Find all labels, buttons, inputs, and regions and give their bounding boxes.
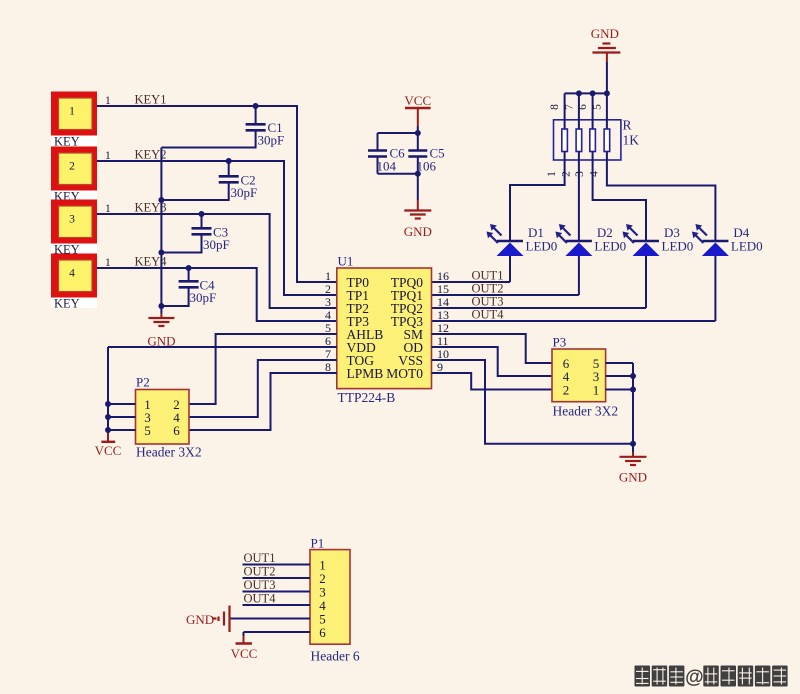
svg-text:P1: P1 bbox=[311, 536, 325, 551]
svg-text:8: 8 bbox=[549, 104, 561, 110]
svg-text:GND: GND bbox=[619, 470, 647, 485]
svg-text:Header 3X2: Header 3X2 bbox=[136, 445, 202, 460]
svg-text:GND: GND bbox=[186, 612, 214, 627]
svg-text:Header 6: Header 6 bbox=[311, 649, 360, 664]
svg-text:2: 2 bbox=[69, 161, 75, 173]
svg-text:TTP224-B: TTP224-B bbox=[338, 390, 396, 405]
svg-text:LED0: LED0 bbox=[662, 239, 694, 254]
svg-text:4: 4 bbox=[588, 171, 600, 177]
svg-text:KEY: KEY bbox=[54, 134, 80, 148]
svg-text:30pF: 30pF bbox=[190, 290, 217, 305]
svg-text:5: 5 bbox=[325, 321, 331, 335]
svg-text:LPMB: LPMB bbox=[347, 366, 384, 381]
svg-text:7: 7 bbox=[563, 104, 575, 110]
svg-text:1: 1 bbox=[593, 382, 600, 397]
svg-text:OUT3: OUT3 bbox=[244, 578, 276, 592]
svg-text:P3: P3 bbox=[553, 335, 567, 350]
svg-text:6: 6 bbox=[319, 625, 326, 640]
svg-text:VCC: VCC bbox=[231, 646, 258, 661]
svg-text:11: 11 bbox=[437, 334, 449, 348]
svg-text:15: 15 bbox=[437, 282, 449, 296]
svg-text:9: 9 bbox=[437, 360, 443, 374]
svg-text:OUT4: OUT4 bbox=[244, 592, 277, 606]
svg-text:GND: GND bbox=[404, 224, 432, 239]
svg-text:2: 2 bbox=[563, 382, 570, 397]
svg-text:OUT1: OUT1 bbox=[244, 551, 276, 565]
svg-text:GND: GND bbox=[591, 26, 619, 41]
svg-text:P2: P2 bbox=[136, 375, 150, 390]
svg-text:OUT3: OUT3 bbox=[472, 295, 504, 309]
svg-text:LED0: LED0 bbox=[731, 239, 763, 254]
svg-text:LED0: LED0 bbox=[594, 239, 626, 254]
svg-text:3: 3 bbox=[325, 295, 331, 309]
svg-text:8: 8 bbox=[325, 360, 331, 374]
svg-text:6: 6 bbox=[173, 423, 180, 438]
svg-text:10: 10 bbox=[437, 347, 449, 361]
svg-text:5: 5 bbox=[144, 423, 151, 438]
svg-text:3: 3 bbox=[574, 171, 586, 177]
svg-text:MOT0: MOT0 bbox=[386, 366, 423, 381]
svg-text:4: 4 bbox=[325, 308, 331, 322]
svg-text:30pF: 30pF bbox=[258, 132, 285, 147]
svg-text:U1: U1 bbox=[338, 254, 354, 269]
svg-text:1: 1 bbox=[325, 269, 331, 283]
svg-text:104: 104 bbox=[377, 159, 397, 174]
svg-text:2: 2 bbox=[325, 282, 331, 296]
svg-text:7: 7 bbox=[325, 347, 331, 361]
svg-text:OUT1: OUT1 bbox=[472, 269, 504, 283]
svg-text:VCC: VCC bbox=[404, 93, 431, 108]
svg-text:12: 12 bbox=[437, 321, 449, 335]
svg-text:@: @ bbox=[685, 667, 704, 688]
svg-text:KEY: KEY bbox=[54, 296, 80, 310]
svg-text:KEY1: KEY1 bbox=[135, 93, 167, 107]
svg-text:Header 3X2: Header 3X2 bbox=[553, 404, 619, 419]
svg-text:5: 5 bbox=[591, 104, 603, 110]
svg-text:6: 6 bbox=[325, 334, 331, 348]
svg-text:6: 6 bbox=[577, 104, 589, 110]
svg-text:1: 1 bbox=[69, 106, 75, 118]
svg-text:30pF: 30pF bbox=[231, 185, 258, 200]
svg-text:106: 106 bbox=[417, 159, 437, 174]
svg-text:3: 3 bbox=[69, 214, 75, 226]
svg-text:OUT4: OUT4 bbox=[472, 308, 505, 322]
svg-text:2: 2 bbox=[560, 171, 572, 177]
svg-text:OUT2: OUT2 bbox=[472, 282, 504, 296]
svg-text:1K: 1K bbox=[623, 133, 640, 148]
svg-text:13: 13 bbox=[437, 308, 449, 322]
svg-text:VCC: VCC bbox=[95, 443, 122, 458]
svg-text:30pF: 30pF bbox=[203, 237, 230, 252]
svg-text:OUT2: OUT2 bbox=[244, 565, 276, 579]
svg-text:R: R bbox=[623, 118, 632, 133]
svg-text:16: 16 bbox=[437, 269, 449, 283]
svg-text:14: 14 bbox=[437, 295, 449, 309]
svg-text:1: 1 bbox=[546, 171, 558, 177]
svg-text:LED0: LED0 bbox=[526, 239, 558, 254]
svg-text:4: 4 bbox=[69, 268, 75, 280]
